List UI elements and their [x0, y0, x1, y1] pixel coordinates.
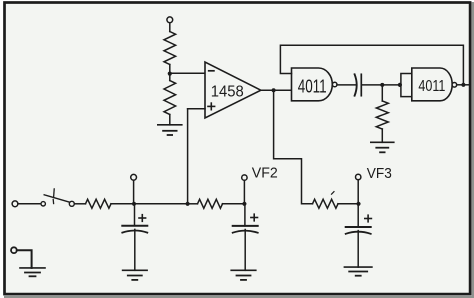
svg-text:4011: 4011 — [418, 78, 445, 95]
wire U2A output to C4 — [337, 84, 356, 86]
capacitor C3 — [346, 227, 371, 234]
node B junction (op-amp output) — [272, 88, 276, 92]
node F junction — [132, 202, 136, 206]
NAND gate U2B 4011 — [412, 68, 457, 101]
input tie bracket U2B — [401, 74, 412, 97]
op-amp U1 1458 — [205, 62, 261, 118]
resistor R1 — [164, 32, 176, 65]
feedback wire from U2B output to U2A input — [280, 45, 463, 85]
ground (R8) — [371, 142, 394, 152]
NAND gate U2A 4011 — [292, 68, 338, 101]
wire C2 to ground — [244, 230, 246, 271]
op-amp minus pin label — [209, 70, 214, 72]
ground (divider) — [158, 125, 182, 135]
resistor R4 — [198, 199, 223, 208]
ground (C3) — [344, 267, 372, 276]
wire C4 to node C — [361, 84, 400, 86]
stray tick above R7 — [332, 192, 335, 195]
wire R3 to node F — [111, 203, 134, 205]
wire op-amp output — [261, 89, 292, 91]
capacitor C1 plus label — [139, 215, 146, 222]
capacitor C2 — [233, 226, 258, 233]
wire node VF2 to C2 — [244, 204, 246, 226]
ground (C2) — [231, 270, 256, 280]
terminal J2 (left input) — [12, 201, 18, 207]
resistor R2 — [164, 81, 176, 115]
label VF3 — [367, 165, 392, 182]
wire J2 to switch S1 — [18, 203, 41, 205]
wire node F to node G — [134, 203, 188, 205]
wire C1 to ground — [134, 229, 136, 270]
wire R8 to ground — [381, 129, 383, 142]
capacitor C4 (coupling) — [355, 74, 362, 95]
node VF2 junction — [242, 202, 246, 206]
switch S1 — [41, 189, 74, 206]
wire J4 to ground — [17, 250, 32, 268]
wire node G to R4 — [188, 203, 198, 205]
wire node F to C1 — [134, 204, 136, 226]
wire R2 to ground — [169, 115, 171, 125]
node G junction — [186, 202, 190, 206]
svg-text:1458: 1458 — [211, 84, 244, 101]
ground (C1) — [123, 270, 148, 280]
resistor R3 — [86, 199, 112, 208]
terminal J1 (top input) — [167, 17, 173, 23]
wire node A to op-amp inverting input — [170, 72, 205, 74]
node A junction — [168, 72, 172, 76]
node VF3 junction — [356, 202, 360, 206]
terminal VF2 — [242, 175, 247, 204]
wire J1 to R1 — [169, 23, 171, 32]
terminal J4 (ground reference) — [11, 247, 17, 253]
wire R4 to node VF2 — [223, 203, 245, 205]
wire node C to R8 — [381, 85, 383, 101]
node E junction (U2B output) — [461, 83, 465, 87]
op-amp plus pin label — [208, 103, 215, 110]
wire node VF3 to C3 — [357, 204, 359, 227]
capacitor C1 — [122, 226, 147, 233]
wire S1 to R3 — [74, 203, 85, 205]
wire op-amp non-inverting input down to rail — [188, 109, 205, 204]
svg-text:4011: 4011 — [298, 77, 327, 97]
node C junction — [380, 83, 384, 87]
ground (J4) — [20, 268, 45, 276]
wire node B down-jog to R7 — [274, 90, 313, 204]
wire R1 to node A — [169, 65, 171, 74]
resistor R8 — [376, 101, 388, 129]
wire node A to R2 — [169, 74, 171, 81]
label VF2 — [252, 165, 278, 182]
capacitor C3 plus label — [365, 215, 372, 222]
terminal VF3 — [356, 174, 361, 204]
terminal J3 — [131, 174, 137, 203]
svg-text:VF2: VF2 — [252, 165, 278, 182]
svg-text:VF3: VF3 — [367, 165, 392, 182]
resistor R7 — [313, 199, 339, 208]
wire U2B output to frame edge — [457, 84, 470, 86]
wire C3 to ground — [357, 231, 359, 268]
node D junction (U2B tied inputs) — [398, 83, 402, 87]
capacitor C2 plus label — [251, 214, 258, 221]
wire R7 to node VF3 — [338, 203, 359, 205]
